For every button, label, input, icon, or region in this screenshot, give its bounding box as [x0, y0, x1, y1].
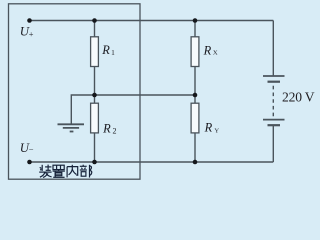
wire: R1 leads [94, 21, 96, 38]
wire: bottom rail from U- node to right side [30, 161, 274, 163]
svg-text:R: R [204, 121, 213, 135]
glyph 内 [67, 165, 78, 178]
ground plate 1 [58, 123, 85, 125]
wire: Rx leads [194, 21, 196, 38]
wire: Ry leads [194, 95, 196, 103]
svg-text:Y: Y [214, 127, 219, 134]
svg-text:+: + [29, 30, 34, 39]
svg-text:X: X [213, 50, 218, 57]
resistor Rx [191, 37, 199, 67]
node Ry bottom junction [193, 160, 198, 165]
node Rx top junction [193, 18, 198, 23]
svg-text:R: R [102, 121, 111, 135]
ground plate 3 [70, 131, 74, 133]
svg-text:2: 2 [113, 127, 117, 136]
wire: top rail from U+ node to right side [30, 20, 274, 22]
device box (装置内部 enclosure) [9, 4, 141, 179]
wire: battery bottom down to bottom rail [272, 125, 274, 162]
node R1 top junction [92, 18, 97, 23]
svg-text:R: R [203, 43, 212, 57]
dashed link between battery cells [272, 86, 274, 118]
node U+ terminal [27, 18, 32, 23]
wire: middle rail from ground bend to Rx/Ry junction [71, 95, 195, 124]
battery cell 2 short plate [268, 124, 281, 126]
glyph 部 [80, 165, 92, 178]
resistor R1 [91, 37, 99, 67]
label 装置内部 (hand-drawn strokes) [39, 165, 92, 178]
svg-text:−: − [29, 146, 34, 155]
glyph 装 [39, 165, 51, 178]
node R2 bottom junction [92, 160, 97, 165]
ground plate 2 [63, 127, 79, 129]
node Rx/Ry mid junction [193, 93, 198, 98]
battery cell 2 long plate [263, 119, 285, 121]
svg-text:220 V: 220 V [282, 90, 315, 105]
resistor Ry [191, 103, 199, 133]
wire: right side down to battery top [272, 21, 274, 77]
resistor R2 [91, 103, 99, 133]
glyph 置 [53, 165, 65, 177]
node R1/R2 mid junction [92, 93, 97, 98]
svg-text:1: 1 [111, 48, 115, 57]
battery cell 1 long plate [263, 75, 285, 77]
wire: R2 leads [94, 95, 96, 103]
battery cell 1 short plate [268, 81, 281, 83]
node U- terminal [27, 160, 32, 165]
svg-text:R: R [101, 43, 110, 57]
